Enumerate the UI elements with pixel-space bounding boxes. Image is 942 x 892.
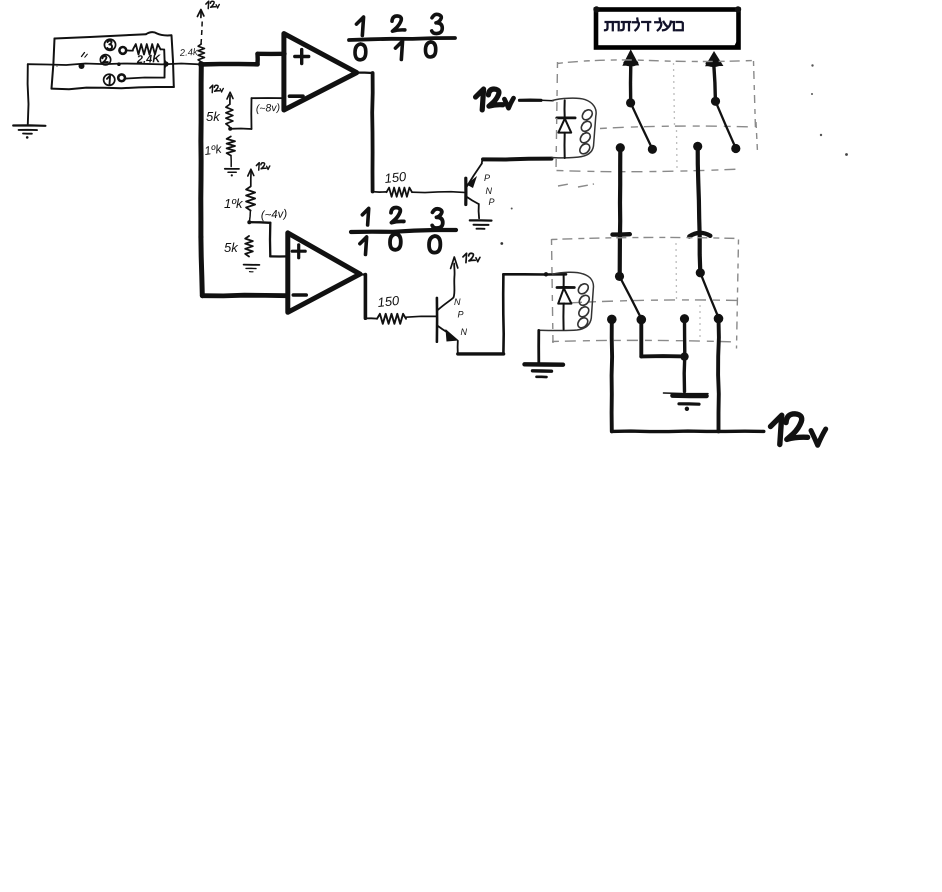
crossing bar left (613, 232, 630, 237)
relay1 dashed enclosure (556, 60, 758, 172)
relay2 switch right (696, 268, 719, 317)
svg-text:1ºk: 1ºk (224, 196, 244, 211)
op-amp U1 (284, 34, 357, 110)
U1 output wire down to R 150 (357, 73, 387, 193)
bottom contact dots A B C D (607, 315, 617, 325)
wire C down to ground (683, 319, 687, 392)
divider1: 12v arrow (227, 92, 233, 104)
label 12v divider1 (210, 85, 213, 92)
circled contact number 2 (100, 55, 110, 65)
svg-text:N: N (454, 297, 461, 307)
bottom 12v rail (612, 429, 764, 433)
wire B down and right to ground junction (641, 320, 684, 357)
divider2: 12v arrow (248, 169, 254, 186)
resistor 150 (Q1 base) (387, 188, 413, 197)
op-amp U2 (288, 233, 360, 312)
resistor 10k lower (227, 137, 235, 156)
node between 5k and 10k (228, 127, 232, 131)
transistor Q1 PNP (466, 161, 483, 219)
switch block (door switch) outline (52, 32, 174, 89)
arrow into box (right) (705, 51, 723, 101)
resistor 2.4k vertical (198, 44, 204, 62)
resistor 2.4K inside switch block (126, 44, 160, 54)
svg-text:150: 150 (377, 293, 401, 310)
vertical wire relay1-left contact down to relay2-left common (618, 148, 623, 276)
wire from resistor to pin1 (right side loop) (125, 49, 165, 78)
small dot contact (pin 2 wiper) (117, 62, 121, 66)
svg-text:P: P (489, 197, 495, 207)
arrow into box (left) (622, 49, 639, 102)
svg-text:N: N (461, 327, 468, 337)
ground below 10k (225, 156, 239, 177)
Hebrew text: door locker (605, 19, 683, 31)
wire 10k to node2 (249, 211, 250, 222)
ground below Q1 emitter (470, 220, 492, 228)
circled contact number 1 (104, 74, 115, 85)
contact terminal circle (pin 1) (118, 74, 125, 81)
far-left ground (13, 64, 45, 139)
door-lock box (noel dlatot) (593, 6, 741, 47)
svg-text:2.4k: 2.4k (178, 47, 199, 59)
svg-text:2.4K: 2.4K (136, 53, 162, 66)
thick wire Q2 emitter to relay2 feed (458, 352, 504, 355)
contact terminal circle (pin 3) (119, 47, 126, 54)
svg-text:(~8v): (~8v) (256, 102, 281, 115)
truth table 2 (351, 207, 456, 254)
wire D down to 12v rail (716, 319, 721, 432)
label 12v relay1 (476, 89, 484, 110)
wire resistor to Q2 base (406, 315, 436, 318)
junction dot B/C (680, 352, 688, 360)
wire from ground to switch block input node (28, 64, 201, 66)
thick vertical wire node down to op-amp U2 - input (201, 64, 287, 296)
wire 12v to relay1 coil (520, 98, 554, 102)
ground below 5k divider2 (244, 265, 260, 272)
wire A down to 12v rail (610, 319, 614, 431)
relay2 coil to ground (525, 330, 564, 377)
ground under C (664, 393, 709, 411)
transistor Q2 NPN (437, 257, 459, 353)
resistor 5k upper (226, 105, 233, 127)
svg-text:150: 150 (384, 169, 408, 186)
stray specks (811, 64, 813, 66)
svg-text:5k: 5k (224, 240, 239, 255)
U2 output wire down to R 150 (360, 274, 377, 319)
node2 dot (247, 220, 251, 224)
12v pull-up: arrow, label, resistor 2.4K (197, 10, 204, 45)
label 12v bottom right (771, 415, 782, 444)
relay2 coil outline (539, 272, 593, 330)
wire divider1 node to U1 - input (230, 98, 284, 129)
circled contact number 3 (104, 39, 115, 50)
truth table 1 (349, 14, 455, 60)
wire resistor to Q1 base (412, 191, 464, 194)
svg-text:5k: 5k (206, 109, 221, 124)
small tick mark above junction (82, 53, 85, 57)
relay1 coil outline (552, 98, 597, 158)
relay1 flyback diode D1 (557, 100, 575, 158)
relay2 switch left (615, 272, 641, 318)
crossing bar right (hop) (689, 233, 710, 237)
thick wire node to op-amp U1 + input (201, 54, 284, 65)
svg-text:P: P (458, 310, 464, 320)
label 12v at Q2 collector (463, 253, 467, 262)
relay2 flyback diode D2 (557, 275, 574, 330)
vertical wire relay1-right contact down to relay2-right common (698, 146, 701, 272)
svg-text:N: N (486, 186, 493, 196)
svg-text:P: P (484, 173, 490, 183)
main node N1 (198, 61, 204, 67)
relay1 switch left: common + lever + contacts (616, 98, 657, 154)
label 12.V divider2 (256, 163, 259, 170)
junction blob on input wire (79, 63, 85, 69)
relay2 dashed enclosure (552, 184, 740, 349)
relay1 switch right: common + lever + contacts (693, 97, 740, 153)
svg-text:(~4v): (~4v) (260, 208, 287, 222)
label 12v (top) (206, 1, 209, 8)
resistor 10k divider2 (246, 187, 255, 211)
resistor 150 (Q2 base) (377, 314, 406, 324)
resistor 5k divider2 (245, 236, 253, 257)
node where switch output meets 12v pull-up (163, 61, 168, 66)
wire divider2 node to U2 + input (249, 222, 288, 256)
thick wire Q1 collector to relay1 coil (483, 157, 552, 162)
relay2 feed wire from Q2 (503, 272, 566, 354)
svg-text:1ºk: 1ºk (203, 142, 223, 158)
